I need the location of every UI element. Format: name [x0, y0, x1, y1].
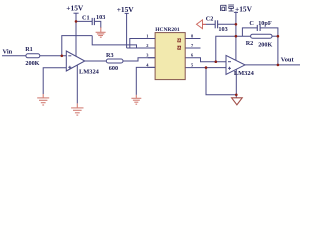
wire R2 right to rail [272, 35, 278, 37]
ground G3 under pin4 [131, 95, 141, 104]
wire isolated +15V rail [235, 12, 237, 61]
wire feedback left vertical and top run [62, 36, 92, 56]
junction dot ground run [235, 94, 238, 97]
wire op2 output to Vout [245, 64, 300, 66]
svg-text:+15V: +15V [117, 5, 135, 14]
svg-text:103: 103 [218, 26, 227, 33]
junction dot op2 plus [205, 66, 208, 69]
power label isolated +15V (hanzi drawn as strokes) [221, 5, 234, 11]
resistor R1 [25, 46, 40, 67]
pin numbers right [191, 33, 194, 67]
wire line2 fb to pin2 [92, 36, 155, 48]
IC U2 HCNR201 [146, 27, 194, 79]
svg-text:R2: R2 [246, 40, 254, 47]
wire +15V rail 2 [126, 13, 128, 48]
junction dot op2 minus [215, 60, 218, 63]
wire op1 output to R3 [85, 60, 107, 62]
wire +15V rail 1 [75, 13, 77, 56]
photodiode glyph bottom [177, 46, 181, 49]
junction dot right rail R2 [277, 35, 280, 38]
svg-text:200K: 200K [25, 60, 39, 67]
wire arrow to C2 [206, 23, 215, 25]
wire pin5 to op2 plus input [185, 67, 226, 69]
resistor R3 [106, 52, 123, 72]
op-amp U1A LM324 [66, 51, 99, 75]
svg-text:10pF: 10pF [258, 20, 272, 27]
wire op1 plus input to ground G1 [43, 68, 66, 94]
junction dot rail L1 [235, 23, 238, 26]
wire pin2 row [127, 47, 156, 49]
svg-text:C1: C1 [82, 14, 90, 21]
wire C right plate to right rail down to output [260, 28, 278, 65]
wire pin7 stub [185, 47, 200, 49]
ground GC1 under C1 [96, 27, 106, 37]
wire pin1 row and step [130, 39, 155, 49]
junction dot R1 feedback [61, 55, 64, 58]
svg-text:Vout: Vout [281, 57, 295, 64]
wire pin4 to ground G3 [136, 67, 155, 95]
ground G1 under op1 plus input [37, 94, 49, 105]
op-amp U1B LM324 right [226, 55, 255, 76]
junction dot right rail output [277, 64, 280, 67]
wire R1 to op1 minus input [40, 55, 67, 57]
svg-text:C: C [249, 20, 253, 27]
wire L2 feedback row with drop to op2 minus [216, 36, 251, 62]
wire C2 to isolated rail [218, 23, 236, 25]
wire op1 Vminus stem [76, 65, 78, 104]
wire op2 plus branch to ground run [206, 68, 236, 95]
svg-text:2: 2 [146, 43, 148, 48]
wire pin6 to op2 minus input [185, 58, 226, 62]
wire block left vertical and C branch [242, 28, 257, 36]
wire C1 right to ground stem [94, 21, 100, 28]
connector arrow left-pointing red [197, 20, 207, 29]
ground G2 under op1 Vminus [71, 103, 83, 115]
svg-text:Vin: Vin [3, 49, 13, 56]
svg-text:1: 1 [146, 33, 148, 38]
svg-text:103: 103 [96, 14, 105, 21]
svg-text:HCNR201: HCNR201 [155, 27, 180, 33]
junction dot rail L2 [235, 35, 238, 38]
wire Vin input [2, 55, 26, 57]
svg-text:200K: 200K [258, 42, 272, 49]
svg-text:+15V: +15V [66, 4, 84, 13]
svg-text:600: 600 [109, 65, 118, 72]
svg-text:LM324: LM324 [234, 70, 255, 77]
capacitor C2 [215, 20, 217, 28]
svg-text:C2: C2 [206, 15, 214, 22]
junction dot +15V C1 [75, 20, 78, 23]
svg-text:R1: R1 [25, 46, 33, 53]
photodiode glyph top [177, 39, 181, 42]
resistor R2 [246, 34, 273, 48]
capacitor C1 [92, 18, 94, 25]
wire op2 Vminus stem to ground G4 [235, 69, 237, 98]
svg-text:R3: R3 [106, 52, 114, 59]
wire C1 branch left [76, 20, 92, 22]
wire R3 to pin3 [123, 58, 155, 61]
capacitor C 10pF [257, 25, 260, 31]
svg-text:LM324: LM324 [79, 68, 100, 75]
wire pin8 stub [185, 38, 200, 40]
pin numbers left [146, 33, 149, 67]
ground G4 hollow triangle right [232, 98, 243, 105]
